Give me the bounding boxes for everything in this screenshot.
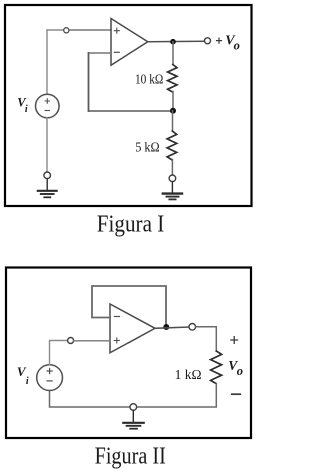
op-amp U2	[110, 304, 155, 353]
ground II	[123, 410, 143, 428]
source Vi	[36, 94, 60, 118]
svg-text:o: o	[234, 38, 240, 52]
source Vi II	[37, 365, 63, 391]
label + top	[231, 337, 238, 344]
wire terminal to op-amp + input	[69, 29, 111, 31]
wire feedback horizontal	[89, 110, 174, 112]
resistor R2 5k zigzag	[167, 131, 177, 160]
node output terminal II	[189, 324, 196, 331]
wire R1 to junction	[172, 92, 174, 111]
wire load bottom	[137, 384, 217, 407]
svg-text:Figura II: Figura II	[95, 444, 166, 470]
wire source top II	[50, 341, 68, 365]
wire source top vertical	[46, 30, 48, 94]
figura I frame	[5, 5, 252, 206]
label Vi	[17, 95, 28, 115]
junction output node	[170, 39, 176, 45]
ground right	[163, 182, 182, 200]
wire input top horizontal	[47, 29, 64, 31]
label Vo II	[228, 358, 243, 378]
wire output to R1	[172, 42, 174, 65]
svg-text:5 kΩ: 5 kΩ	[135, 140, 160, 155]
junction feedback node	[170, 108, 176, 114]
wire feedback loop	[92, 286, 166, 324]
resistor R1 10k zigzag	[168, 65, 177, 92]
wire junction to R2	[172, 111, 174, 131]
ground left	[38, 179, 57, 198]
wire bottom left	[50, 391, 131, 407]
label +Vo	[217, 34, 240, 53]
wire op-amp output	[155, 327, 189, 328]
svg-text:Figura I: Figura I	[97, 211, 165, 237]
wire R2 to terminal	[171, 160, 173, 175]
svg-text:1 kΩ: 1 kΩ	[175, 368, 202, 383]
op-amp U1	[111, 19, 148, 66]
wire feedback vertical	[88, 53, 90, 111]
figura II frame	[6, 268, 251, 439]
resistor RL 1k zigzag	[211, 351, 222, 384]
svg-text:10 kΩ: 10 kΩ	[135, 72, 163, 87]
node input terminal	[64, 28, 69, 33]
wire source bottom vertical	[46, 118, 48, 172]
node above ground right	[169, 175, 176, 182]
junction output node II	[163, 324, 169, 330]
svg-text:i: i	[26, 376, 29, 387]
node input terminal II	[68, 338, 74, 344]
node ground terminal II	[130, 404, 137, 411]
node above ground left	[44, 172, 51, 179]
label vi II	[17, 364, 29, 387]
wire output	[148, 40, 204, 43]
wire op-amp - input	[89, 52, 112, 54]
wire terminal to load corner	[196, 327, 217, 351]
wire terminal to op-amp + input II	[74, 340, 110, 342]
node output terminal	[205, 38, 211, 44]
svg-text:o: o	[237, 364, 243, 378]
label - bottom	[232, 393, 241, 395]
svg-text:i: i	[25, 104, 28, 115]
